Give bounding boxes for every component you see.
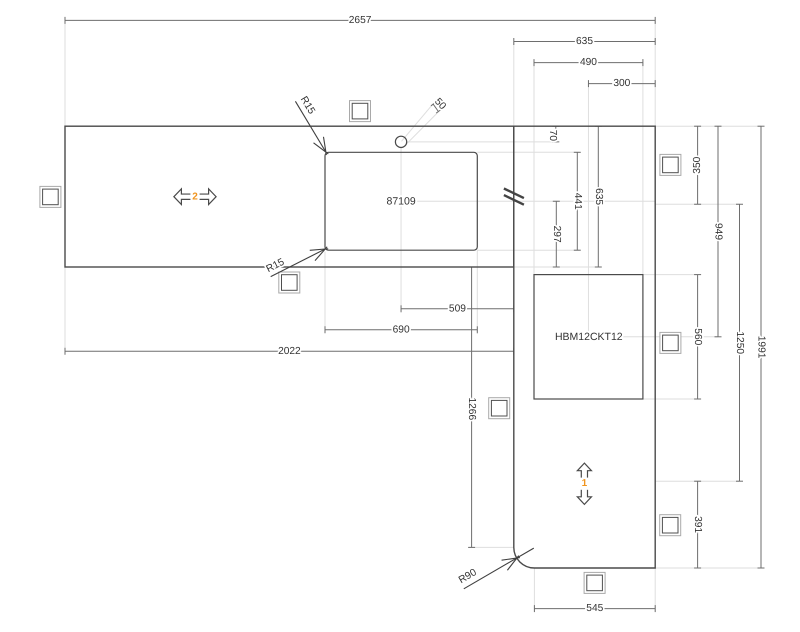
svg-text:2657: 2657	[349, 15, 372, 26]
svg-text:2: 2	[192, 191, 198, 202]
dimension 949 top to cooktop center	[715, 126, 722, 337]
dimension 2657 overall width	[65, 17, 655, 24]
countertop piece 2 outline	[65, 126, 514, 267]
orientation arrow 1 (vertical)	[577, 463, 591, 504]
svg-text:490: 490	[580, 57, 597, 68]
ext line cooktop center to 300	[587, 84, 589, 331]
sink cutout 87109	[325, 152, 477, 250]
fixing square right upper	[660, 154, 681, 175]
ext line faucet center to 509	[400, 148, 402, 312]
joint mark double slash	[504, 189, 524, 205]
radius leader R15 bottom	[271, 247, 328, 277]
ext line piece2 bottom to 635	[514, 266, 601, 268]
dimension 545 bottom width	[534, 605, 655, 612]
ext line curve end to 545	[533, 568, 535, 612]
svg-text:1991: 1991	[756, 336, 767, 359]
ext line curve start to 1266	[469, 546, 514, 548]
ext line sink right to 690	[476, 250, 478, 333]
svg-text:350: 350	[692, 156, 703, 173]
ext line right to 391 top	[655, 480, 739, 482]
radius leader R15 top	[295, 101, 328, 155]
ext line left top	[64, 20, 66, 126]
ext line joint top to 635	[513, 42, 515, 127]
svg-text:635: 635	[576, 36, 593, 47]
dimension 1991 piece1 length	[758, 126, 765, 568]
svg-text:2022: 2022	[278, 346, 301, 357]
countertop piece 1 outline with R90 corner	[514, 126, 655, 568]
dimension 350 top to sink center	[694, 126, 701, 204]
dimension 50 faucet hole	[431, 103, 441, 114]
ext line faucet height to 70	[407, 141, 558, 143]
ext line sink left to 690	[324, 252, 326, 333]
svg-text:1250: 1250	[734, 331, 745, 354]
svg-text:1: 1	[582, 478, 588, 489]
svg-text:690: 690	[393, 324, 410, 335]
svg-text:297: 297	[551, 226, 562, 243]
fixing square piece1 left	[489, 398, 510, 419]
dimension 509 faucet to joint	[401, 305, 514, 312]
ext line cooktop top to 560	[643, 274, 698, 276]
svg-text:441: 441	[572, 193, 583, 210]
ext line sink bottom to 441	[477, 249, 579, 251]
svg-text:1266: 1266	[466, 397, 477, 420]
orientation arrow 2 (horizontal)	[174, 189, 216, 205]
ext line cooktop bottom to 560	[643, 398, 698, 400]
ext line hole 50 a	[402, 103, 434, 141]
svg-text:391: 391	[692, 516, 703, 533]
dimension 70 top edge to faucet	[552, 126, 559, 142]
dimension 297 sink center to front	[553, 201, 560, 267]
svg-text:560: 560	[692, 328, 703, 345]
fixing square right middle	[660, 332, 681, 353]
fixing square bottom piece2	[279, 272, 300, 293]
ext line cooktop left to 490	[533, 63, 535, 275]
dimension 1266 piece1 left length	[468, 267, 475, 547]
dimension 560 cooktop height	[694, 275, 701, 399]
radius leader R90	[464, 548, 534, 589]
dimension 635 piece2 depth	[595, 126, 602, 267]
ext line sink centerline	[417, 200, 656, 202]
ext line right corner to 545	[654, 568, 656, 612]
dimension 391	[694, 481, 701, 568]
svg-text:635: 635	[593, 188, 604, 205]
dimension 300 cooktop center to edge	[588, 80, 655, 87]
ext line right to 1250 top	[655, 203, 739, 205]
svg-text:HBM12CKT12: HBM12CKT12	[555, 331, 623, 343]
countertop piece 2 fill	[65, 126, 514, 267]
faucet hole	[395, 136, 406, 147]
svg-text:545: 545	[586, 603, 603, 614]
fixing square left	[40, 186, 61, 207]
dimension 1250	[736, 204, 743, 481]
dimension 490 cooktop width	[534, 59, 643, 66]
ext line sink top to 441	[477, 151, 579, 153]
fixing square top	[350, 101, 371, 122]
dimension 635 piece1 width	[514, 38, 655, 45]
ext line hole 50 b	[405, 112, 438, 146]
dimension 690 sink width	[325, 326, 477, 333]
svg-text:509: 509	[449, 303, 466, 314]
ext line cooktop centerline to 949	[623, 336, 719, 338]
ext line bottom right corner	[655, 567, 761, 569]
cooktop cutout HBM12CKT12	[534, 275, 643, 399]
fixing square right lower	[660, 515, 681, 536]
svg-text:300: 300	[613, 78, 630, 89]
svg-text:70: 70	[547, 130, 558, 142]
ext line cooktop right to 490	[642, 63, 644, 275]
dimension 2022 piece2 width	[65, 348, 514, 355]
fixing square bottom piece1	[584, 572, 605, 593]
countertop piece 1 fill	[514, 126, 655, 568]
svg-text:949: 949	[713, 223, 724, 240]
dimension 441 sink height	[574, 152, 581, 250]
ext line right top to 2657	[654, 20, 656, 126]
svg-text:87109: 87109	[386, 195, 415, 207]
ext line top right corner	[655, 125, 761, 127]
ext line left bottom to 2022	[64, 267, 66, 354]
